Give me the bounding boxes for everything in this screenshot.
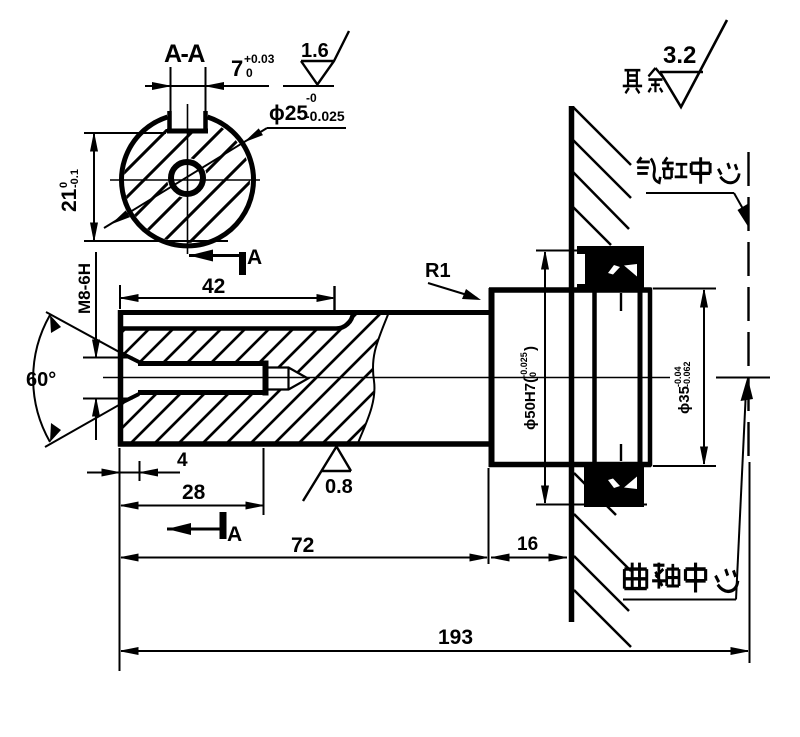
dimension text phi35 tolerance rotated <box>673 361 693 414</box>
svg-text:60°: 60° <box>26 369 56 391</box>
dimension 193 <box>121 626 748 654</box>
flange and journal top edge <box>489 287 651 293</box>
dimension 42 keyway length <box>120 275 335 314</box>
bearing right edge <box>638 246 643 507</box>
shaft top edge <box>118 310 491 315</box>
dimension phi35 journal <box>653 289 716 467</box>
svg-text:21: 21 <box>58 188 81 212</box>
label qigang zhongxin (cylinder center) <box>637 157 739 183</box>
dimension 7 keyway width <box>145 67 269 113</box>
svg-text:-0: -0 <box>306 91 317 105</box>
M8 hole in section <box>171 162 203 194</box>
dimension 28 thread depth <box>121 448 264 515</box>
shaft left face <box>118 310 124 447</box>
svg-text:0: 0 <box>528 372 538 377</box>
dimension M8-6H thread <box>75 252 133 440</box>
svg-text:7: 7 <box>231 56 243 81</box>
svg-text:ϕ50H7(: ϕ50H7( <box>522 378 539 430</box>
M8 thread end line <box>263 361 269 396</box>
cylinder centerline extension solid <box>749 462 751 663</box>
label quzhou zhongxin (crank center) <box>624 563 738 593</box>
dimension 72 <box>121 534 487 561</box>
section A-A circle hatched body <box>20 100 359 250</box>
bearing inner ring left edge <box>592 291 597 463</box>
dimension text 7 +0.03/0 <box>231 52 275 81</box>
svg-text:1.6: 1.6 <box>301 40 329 62</box>
svg-text:ϕ25: ϕ25 <box>269 102 308 125</box>
break line of local section <box>358 312 389 443</box>
label qiyu (others) <box>623 68 663 93</box>
svg-text:+0.03: +0.03 <box>244 52 275 66</box>
M8 thread major top line <box>138 361 266 366</box>
section centerline vertical <box>187 104 189 254</box>
M8 thread major bottom line <box>138 390 266 395</box>
cylinder centerline dashed <box>747 152 749 462</box>
dimension phi50H7 bearing seat <box>536 251 647 505</box>
leader for cylinder center <box>646 193 749 228</box>
svg-text:72: 72 <box>291 534 314 557</box>
section cut marker A bottom <box>167 512 242 546</box>
roughness symbol 0.8 <box>303 447 351 502</box>
svg-text:A: A <box>227 523 242 546</box>
dimension 16 <box>491 534 567 561</box>
dimension text 21 0/-0.1 <box>58 169 81 212</box>
wall hatch bottom <box>574 473 631 647</box>
bearing bottom outer ring and seal <box>584 463 644 507</box>
svg-text:-0.062: -0.062 <box>682 361 692 387</box>
shaft bottom edge <box>118 441 491 447</box>
svg-text:): ) <box>522 346 539 351</box>
flange and journal bottom edge <box>489 462 651 468</box>
dimension 4 keyway depth <box>87 450 188 481</box>
dimension 21 keyway depth <box>84 133 228 241</box>
main centerline <box>103 377 670 379</box>
svg-text:28: 28 <box>182 481 206 504</box>
svg-text:-0.1: -0.1 <box>69 169 81 188</box>
bearing top outer ring and seal <box>577 246 644 291</box>
svg-text:-0.025: -0.025 <box>305 108 345 124</box>
M8 entry chamfer <box>120 353 139 404</box>
dimension 60 degrees chamfer <box>26 312 133 447</box>
svg-text:A-A: A-A <box>164 40 205 68</box>
keyway slot in section <box>167 111 208 133</box>
crank centerline cross at right <box>716 377 770 379</box>
leader for crank center <box>623 377 753 600</box>
keyway floor line with runout <box>119 313 353 329</box>
svg-text:16: 16 <box>517 534 538 555</box>
flange left face <box>489 288 495 467</box>
flange extension line <box>488 468 490 564</box>
svg-text:193: 193 <box>438 626 473 649</box>
svg-text:3.2: 3.2 <box>663 42 696 69</box>
crankcase wall line <box>569 106 575 622</box>
dimension text phi50H7(+0.025/0) rotated <box>519 346 539 430</box>
section centerline horizontal <box>110 179 260 181</box>
svg-text:M8-6H: M8-6H <box>75 263 94 314</box>
left extension line for 28 72 193 <box>119 448 121 671</box>
M8 tapped hole void white <box>119 352 308 404</box>
svg-text:0.8: 0.8 <box>325 476 353 498</box>
keyway void white <box>118 314 352 327</box>
wall hatch top <box>573 107 631 245</box>
roughness symbol 3.2 general <box>660 20 727 107</box>
shaft left section hatched area <box>0 300 538 450</box>
svg-text:A: A <box>247 246 262 269</box>
dimension text phi25 0/-0.025 <box>269 91 345 125</box>
svg-text:R1: R1 <box>425 260 451 282</box>
section A-A outer circle <box>121 117 253 246</box>
svg-text:4: 4 <box>177 450 188 471</box>
section cut marker A top <box>189 246 262 275</box>
drill hole beyond thread <box>266 367 308 390</box>
svg-text:42: 42 <box>202 275 225 298</box>
journal end face <box>648 288 653 467</box>
roughness symbol 1.6 <box>283 31 349 86</box>
svg-text:0: 0 <box>246 66 253 80</box>
fillet label R1 <box>425 260 481 300</box>
bearing ball groove marks <box>620 293 622 461</box>
dimension phi25 leader <box>104 128 346 228</box>
svg-text:ϕ35: ϕ35 <box>676 386 693 414</box>
